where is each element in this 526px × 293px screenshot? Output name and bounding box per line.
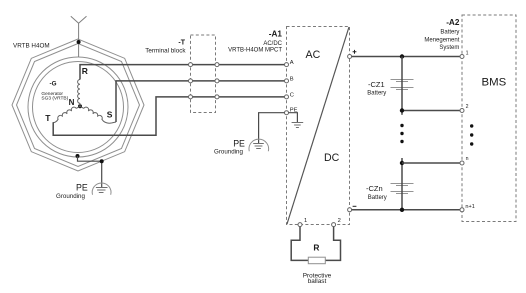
svg-text:2: 2 <box>338 218 341 224</box>
battery bus lower segment <box>401 158 403 210</box>
terminal + circle <box>348 55 352 59</box>
BMS terminal 1 <box>460 55 464 59</box>
generator -G stator inner circle <box>33 62 124 153</box>
winding coil T phase <box>53 107 76 122</box>
svg-text:AC: AC <box>306 49 321 61</box>
ground tap elbow wire <box>78 156 102 188</box>
generator -G inner octagon housing <box>17 44 140 167</box>
generator -G stator outer circle <box>28 57 128 157</box>
wire phase A from R winding to -A1 <box>80 65 285 80</box>
svg-text:-T: -T <box>178 39 185 46</box>
svg-text:n: n <box>466 156 469 162</box>
svg-text:BMS: BMS <box>482 77 507 89</box>
svg-text:R: R <box>82 66 88 76</box>
svg-text:System: System <box>439 45 459 51</box>
terminal 1 circle (bottom) <box>298 223 302 227</box>
converter -A1 dashed box <box>287 27 350 225</box>
winding stubs from star point <box>76 103 84 108</box>
generator -G outer octagon housing <box>12 39 144 171</box>
svg-text:ballast: ballast <box>308 278 327 285</box>
PE grounding electrode symbol (converter) <box>249 139 269 151</box>
wire phase C routing from T winding <box>53 97 284 135</box>
minus sign <box>353 205 357 207</box>
svg-text:VRTB-H4OM MPCT: VRTB-H4OM MPCT <box>228 48 282 54</box>
svg-text:B: B <box>290 76 294 82</box>
plus sign <box>353 50 357 54</box>
junction dot on octagon top vertex <box>77 40 81 44</box>
wire bottom bus - to BMS n+1 <box>352 209 460 211</box>
battery -CZ1 plates <box>391 80 414 90</box>
junction dot on octagon edge <box>100 159 104 163</box>
resistor R protective ballast <box>308 257 325 264</box>
terminal block -T dashed box <box>191 35 216 113</box>
terminal C circle <box>285 95 289 99</box>
terminal 2 circle (bottom) <box>332 223 336 227</box>
BMS terminal n <box>460 161 464 165</box>
PE internal earth wire <box>289 113 298 123</box>
svg-text:2: 2 <box>466 104 469 110</box>
junction dot bus top <box>400 54 404 58</box>
wire bus row n <box>402 162 460 164</box>
svg-text:n+1: n+1 <box>465 204 475 210</box>
BMS terminal n+1 <box>460 208 464 212</box>
terminal circles of -T <box>189 63 220 99</box>
junction dot row n <box>400 161 404 165</box>
terminal A circle <box>285 63 289 67</box>
svg-text:-G: -G <box>50 81 57 88</box>
PE wire to grounding electrode <box>259 113 285 144</box>
svg-text:DC: DC <box>324 152 340 164</box>
svg-text:VRTB H4OM: VRTB H4OM <box>13 42 50 49</box>
svg-text:-A1: -A1 <box>269 30 283 39</box>
AC/DC separator diagonal <box>287 27 349 224</box>
BMS terminal 2 <box>460 109 464 113</box>
terminal PE circle <box>285 111 289 115</box>
svg-text:AC/DC: AC/DC <box>263 41 282 47</box>
svg-text:N: N <box>69 98 75 107</box>
BMS -A2 dashed box <box>462 15 516 222</box>
svg-text:Battery: Battery <box>440 30 459 36</box>
wire phase B riser from S winding <box>116 81 285 122</box>
PE grounding electrode symbol (generator) <box>92 183 111 195</box>
wire + to battery bus and BMS pin 1 <box>352 56 460 58</box>
antenna / star-point lead <box>71 16 87 57</box>
star point junction dot N <box>78 104 82 108</box>
junction dot bottom bus <box>400 208 404 212</box>
svg-text:Menegement: Menegement <box>424 38 459 44</box>
internal earth symbol <box>292 123 304 128</box>
wire terminal 1 to ballast <box>291 227 308 261</box>
svg-text:-A2: -A2 <box>446 18 460 27</box>
battery bus upper segment <box>401 57 403 115</box>
battery -CZn plates <box>391 184 414 194</box>
svg-text:-CZ1: -CZ1 <box>368 80 385 89</box>
svg-text:Grounding: Grounding <box>56 193 85 200</box>
svg-text:-CZn: -CZn <box>366 184 383 193</box>
svg-text:R: R <box>313 243 319 253</box>
bus ellipsis dots <box>400 124 403 127</box>
junction dot row 2 <box>400 108 404 112</box>
wire ballast to terminal 2 <box>325 227 340 261</box>
svg-text:Battery: Battery <box>367 91 386 97</box>
svg-text:1: 1 <box>466 50 469 56</box>
svg-text:S: S <box>107 109 113 119</box>
terminal - circle <box>348 208 352 212</box>
BMS ellipsis dots <box>470 124 473 127</box>
winding coil R phase <box>78 80 80 104</box>
svg-text:T: T <box>45 113 51 123</box>
generator frame ground tap junction dot <box>76 154 80 158</box>
svg-text:PE: PE <box>76 182 88 192</box>
svg-text:SG3 (VRTB): SG3 (VRTB) <box>41 96 68 102</box>
terminal B circle <box>285 79 289 83</box>
svg-text:Battery: Battery <box>368 195 387 201</box>
svg-text:PE: PE <box>233 138 245 148</box>
svg-text:C: C <box>290 92 294 98</box>
svg-text:A: A <box>290 60 294 66</box>
svg-text:Grounding: Grounding <box>214 148 243 155</box>
svg-text:1: 1 <box>304 218 307 224</box>
winding coil S phase <box>84 107 116 123</box>
wire bus row 2 <box>402 110 460 112</box>
svg-text:Terminal block: Terminal block <box>145 48 186 55</box>
